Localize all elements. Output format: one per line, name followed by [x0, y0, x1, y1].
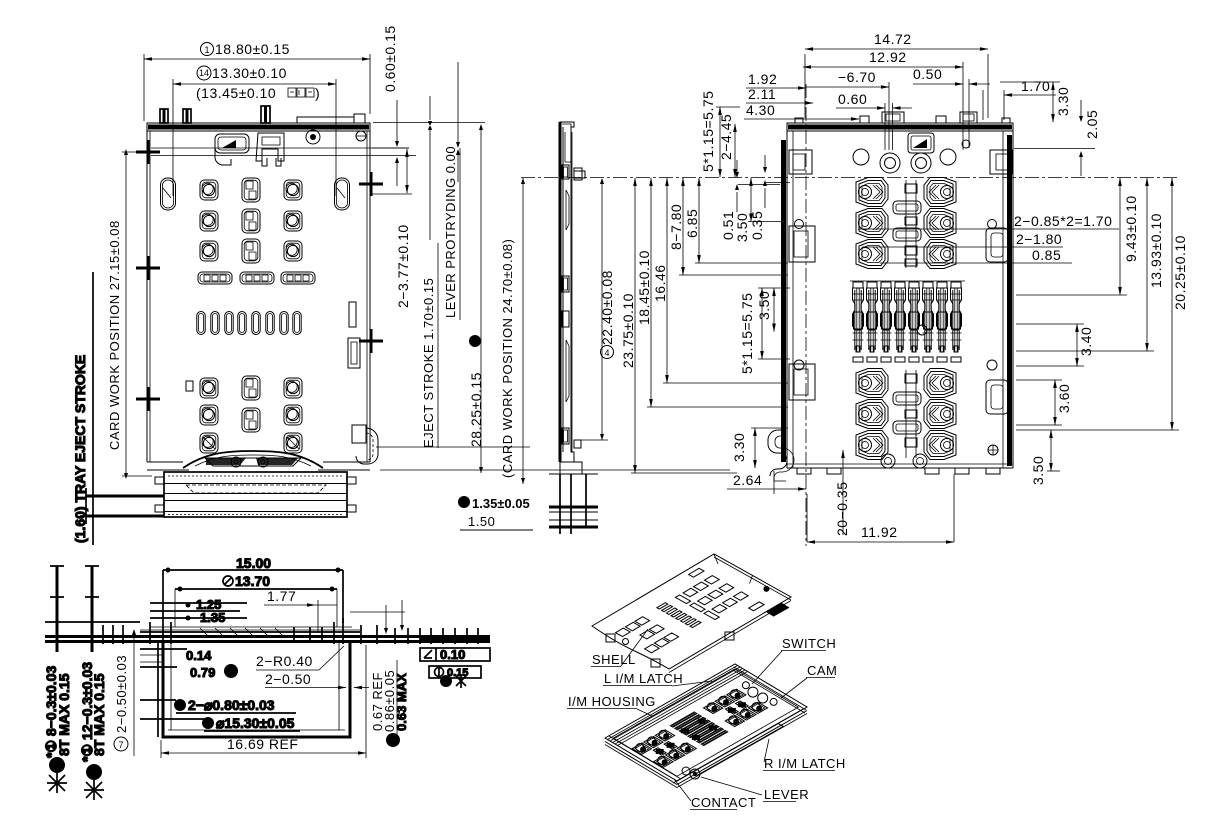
shell holes: [705, 576, 720, 585]
svg-text:2.11: 2.11: [748, 86, 776, 102]
datum dash-dot vertical: [805, 84, 807, 546]
small left stub: [186, 381, 193, 391]
contact row4: [200, 378, 218, 398]
bottom cam column: [906, 370, 916, 458]
svg-text:LEVER: LEVER: [764, 787, 809, 802]
svg-text:3.30: 3.30: [731, 433, 747, 462]
shell ladder slots: [657, 603, 668, 609]
switch feature: [908, 133, 934, 153]
dimension eject stroke line: [429, 96, 431, 240]
dimension 5*1.15=5.75 lower: [761, 288, 763, 359]
small arrows above band: [384, 625, 404, 634]
svg-text:0.14: 0.14: [186, 648, 212, 663]
svg-text:1.77: 1.77: [267, 588, 296, 604]
cross marks left edge: [136, 140, 160, 411]
right dimension 20.25: [1016, 429, 1179, 431]
svg-text:(13.45±0.10: (13.45±0.10: [196, 85, 276, 101]
dimension 3.30 top right: [1000, 81, 1060, 83]
svg-text:14: 14: [199, 68, 209, 78]
right dimension 3.60: [1016, 380, 1062, 425]
side view body: [560, 122, 574, 462]
label 1.35±0.05 bold: [458, 496, 470, 508]
dimension 18.80 ext lines: [144, 54, 370, 121]
dimension 2-4.45: [734, 124, 736, 177]
svg-text:SWITCH: SWITCH: [782, 636, 836, 651]
housing switch circles: [748, 687, 758, 697]
svg-text:2−⌀0.80±0.03: 2−⌀0.80±0.03: [188, 697, 275, 713]
svg-text:0.50: 0.50: [913, 66, 942, 82]
svg-text:0.10: 0.10: [440, 647, 465, 662]
svg-text:20−0.35: 20−0.35: [834, 482, 850, 537]
svg-text:EJECT STROKE 1.70±0.15: EJECT STROKE 1.70±0.15: [421, 278, 436, 448]
dimension 2.05: [1014, 148, 1095, 150]
contact row5: [200, 405, 218, 425]
svg-text:1.35±0.05: 1.35±0.05: [472, 496, 530, 511]
side pin bottom: [574, 440, 581, 448]
svg-text:4.30: 4.30: [746, 102, 775, 118]
dimension 0.60 right: [836, 107, 885, 109]
dimension 2-3.77: [406, 149, 408, 193]
dimension chain 18.45: [650, 178, 652, 407]
svg-text:23.75±0.10: 23.75±0.10: [620, 293, 636, 368]
latch left mid: [789, 226, 815, 262]
dimension 13.30 ext lines: [173, 79, 336, 196]
dimension 28.25 line: [480, 129, 482, 473]
contact row1 ovals: [161, 178, 176, 210]
bottom petal cluster right column: [924, 369, 956, 398]
dimension 3.50 lower-left: [773, 288, 775, 332]
svg-text:2−0.85*2=1.70: 2−0.85*2=1.70: [1014, 213, 1112, 229]
svg-text:14.72: 14.72: [874, 31, 912, 47]
housing outline: [605, 664, 807, 781]
dimension chain 6.85: [698, 178, 700, 263]
svg-text:0.60: 0.60: [838, 91, 867, 107]
label 22.40±0.08: [601, 346, 614, 359]
rounded rect feature: [215, 134, 249, 153]
svg-text:1: 1: [204, 45, 209, 55]
svg-text:3.50: 3.50: [734, 213, 750, 242]
svg-text:2−0.50±0.03: 2−0.50±0.03: [114, 655, 129, 733]
left edge: [146, 131, 148, 462]
svg-text:−6.70: −6.70: [838, 69, 876, 85]
left edge: [786, 131, 788, 468]
svg-text:12.92: 12.92: [869, 49, 907, 65]
dimension 4.30: [744, 118, 859, 120]
svg-text:6.85: 6.85: [684, 209, 700, 238]
dimension 22.40: [601, 183, 603, 440]
main band: [45, 635, 490, 638]
svg-text:16.46: 16.46: [652, 264, 668, 302]
svg-text:0.35: 0.35: [749, 211, 765, 240]
top tabs: [160, 109, 168, 123]
latch left low: [789, 364, 815, 400]
right inner slot: [349, 302, 356, 327]
housing inner plate: [613, 669, 798, 776]
gdt frames right: [420, 648, 490, 661]
round pin: [306, 130, 320, 144]
svg-text:3.30: 3.30: [1055, 87, 1071, 116]
side view top cap: [562, 124, 571, 162]
dome circles: [231, 457, 241, 467]
top tabs: [860, 116, 869, 123]
shell dark mark: [766, 603, 790, 617]
dimension label 18.80±0.15: [201, 43, 214, 56]
feet: [797, 468, 811, 474]
right edge: [1012, 131, 1014, 468]
svg-text:): ): [315, 85, 320, 101]
svg-text:15.00: 15.00: [236, 555, 271, 571]
svg-text:LEVER PROTRYDING 0.00: LEVER PROTRYDING 0.00: [443, 146, 458, 318]
shell edge thickness: [669, 601, 791, 673]
small circles: [795, 220, 804, 229]
body outline: [768, 112, 1013, 481]
svg-text:4: 4: [604, 348, 609, 358]
label 2-0.80 bold: [174, 699, 186, 711]
label 20-0.35: [842, 450, 844, 535]
dimension 13.70 bold: [223, 576, 233, 586]
shell plate outline: [592, 554, 791, 669]
svg-text:8T MAX 0.15: 8T MAX 0.15: [56, 673, 72, 756]
dimension label 13.30±0.10: [197, 66, 211, 80]
right dimension 3.40: [1016, 324, 1084, 366]
svg-text:13.70: 13.70: [235, 573, 270, 589]
svg-text:0.60±0.15: 0.60±0.15: [382, 25, 398, 92]
bottom extension line: [380, 469, 730, 471]
body outline top view: [136, 106, 409, 470]
dimension 18.80 line: [144, 58, 370, 60]
svg-text:CONTACT: CONTACT: [691, 795, 756, 810]
svg-text:28.25±0.15: 28.25±0.15: [468, 372, 484, 447]
svg-text:9.43±0.10: 9.43±0.10: [1123, 195, 1139, 262]
latch right top: [990, 150, 1012, 174]
svg-text:11.92: 11.92: [861, 524, 898, 540]
inner horizontal lines top: [151, 147, 409, 149]
svg-text:2−1.80: 2−1.80: [1016, 231, 1062, 247]
dimension 0.50: [968, 79, 970, 148]
label 2-1.80: [862, 246, 1063, 248]
bottom petal cluster left column: [856, 369, 888, 398]
svg-text:0.85: 0.85: [1032, 247, 1061, 263]
top petal cluster left column: [856, 178, 888, 207]
svg-text:1.50: 1.50: [468, 514, 495, 529]
lever pin: [574, 168, 582, 180]
lower rectangle tray section: [163, 642, 350, 737]
bottom edge: [787, 467, 1013, 469]
svg-text:1.35: 1.35: [200, 610, 225, 625]
label 28.25±0.15: [469, 335, 481, 347]
svg-text:0.79: 0.79: [190, 665, 215, 680]
centre line through side view: [521, 177, 792, 179]
svg-text:2.05: 2.05: [1084, 110, 1100, 139]
latch right low: [986, 380, 1008, 414]
svg-text:18.45±0.10: 18.45±0.10: [636, 250, 652, 325]
side view tray section: [549, 474, 598, 527]
svg-text:8T MAX 0.15: 8T MAX 0.15: [91, 673, 107, 756]
top circles: [853, 149, 869, 165]
spring contacts: [853, 288, 962, 352]
svg-text:2−4.45: 2−4.45: [718, 114, 734, 160]
label 7 2-0.50 rotated: [114, 737, 128, 751]
lever line extensions: [372, 148, 416, 194]
dome: [183, 451, 323, 468]
small circle right: [356, 131, 366, 141]
cam rod: [692, 723, 783, 775]
svg-text:R I/M LATCH: R I/M LATCH: [764, 756, 846, 771]
dimension chain 23.75: [634, 178, 636, 473]
top cam column: [906, 180, 916, 268]
band ticks: [103, 618, 478, 644]
left dimension chain 5*1.15=5.75 top: [719, 107, 721, 177]
latch left top: [789, 150, 812, 174]
dimension 14.72: [805, 54, 988, 118]
shell corner tabs: [606, 634, 615, 642]
svg-text:7: 7: [118, 740, 123, 750]
lever pin: [690, 769, 700, 779]
left bold verticals: [56, 566, 59, 652]
contact row1 squares: [200, 180, 218, 200]
svg-text:13.93±0.10: 13.93±0.10: [1148, 213, 1164, 288]
dimension 0.35: [764, 155, 766, 208]
dimension 24.70 line: [522, 178, 524, 484]
contact row2: [200, 211, 218, 231]
dimension 2.11: [746, 102, 813, 104]
dimension 6.70: [806, 86, 889, 88]
dimension 0.51: [738, 184, 780, 186]
dimension 2.64: [727, 488, 806, 490]
elongated pads: [198, 272, 232, 284]
label 0.85: [880, 262, 1072, 264]
bold cluster 1.25 1.35: [150, 602, 247, 604]
dimension 0.60 arrows: [396, 100, 398, 186]
right dimension 3.50: [1050, 430, 1052, 471]
bottom screw circles: [881, 454, 895, 468]
dimension 3.50 left: [750, 178, 752, 222]
bottom edge with dome: [147, 461, 370, 463]
dimension chain 8-7.80: [682, 178, 684, 275]
bottom right curl: [352, 425, 366, 443]
middle oval row: [197, 312, 205, 335]
spring top rail: [850, 280, 965, 282]
tray eject lines: [86, 495, 164, 498]
svg-text:13.30±0.10: 13.30±0.10: [212, 65, 287, 81]
dimension 3.30 bottom-left: [754, 428, 756, 468]
svg-text:16.69 REF: 16.69 REF: [227, 736, 298, 752]
contact row3: [200, 241, 218, 261]
svg-text:2−3.77±0.10: 2−3.77±0.10: [395, 224, 411, 308]
svg-text:L I/M LATCH: L I/M LATCH: [604, 671, 683, 686]
dimension 1.70: [1004, 94, 1056, 96]
svg-text:1.92: 1.92: [748, 71, 777, 87]
svg-text:3.40: 3.40: [1078, 327, 1094, 356]
latch right mid: [986, 228, 1008, 262]
contact row6: [200, 433, 218, 453]
dimension lever 0.00 zero arrows: [457, 62, 459, 182]
shell pin hole: [763, 586, 769, 592]
svg-text:⌀15.30±0.05: ⌀15.30±0.05: [216, 715, 295, 731]
svg-text:18.80±0.15: 18.80±0.15: [215, 41, 290, 57]
svg-text:3.50: 3.50: [1030, 456, 1046, 485]
housing springs ladder: [670, 712, 697, 727]
dimension chain 16.46: [666, 178, 668, 383]
svg-text:8−7.80: 8−7.80: [668, 204, 684, 250]
dimension 11.92: [807, 474, 954, 542]
dimension 12.92: [962, 62, 964, 150]
dimension 1.92: [746, 87, 806, 89]
label 15.30 bold: [202, 717, 214, 729]
svg-text:5*1.15=5.75: 5*1.15=5.75: [739, 293, 755, 374]
svg-text:3.50: 3.50: [756, 291, 772, 320]
right dimension 13.93: [1016, 350, 1154, 352]
tray below body: [80, 472, 533, 530]
svg-text:2−0.50: 2−0.50: [265, 671, 311, 687]
outer box verticals: [163, 570, 343, 737]
svg-text:5*1.15=5.75: 5*1.15=5.75: [700, 91, 716, 172]
spring pad row: [853, 357, 961, 362]
top band: [147, 123, 370, 131]
lever curl: [768, 430, 787, 476]
svg-text:0.63 MAX: 0.63 MAX: [394, 673, 409, 731]
top petal cluster right column: [924, 178, 956, 207]
svg-text:22.40±0.08: 22.40±0.08: [599, 270, 615, 345]
svg-text:CAM: CAM: [807, 663, 837, 678]
label 2-0.85*2=1.70: [858, 228, 1119, 230]
top edge extension: [373, 122, 485, 124]
dimension 27.15 line: [125, 152, 127, 476]
svg-text:1.70: 1.70: [1021, 78, 1050, 94]
right dimension 9.43: [1016, 294, 1127, 296]
svg-text:CARD WORK POSITION 27.15±0.08: CARD WORK POSITION 27.15±0.08: [107, 220, 122, 450]
svg-text:2.64: 2.64: [733, 472, 762, 488]
side view lower step: [560, 462, 582, 474]
housing rim lines: [608, 666, 738, 740]
right edge: [369, 131, 371, 462]
svg-text:2−R0.40: 2−R0.40: [256, 653, 313, 669]
svg-text:3.60: 3.60: [1056, 384, 1072, 413]
dimension 13.30 line: [173, 83, 336, 85]
chair feature: [256, 133, 284, 161]
centre line horizontal: [795, 177, 1180, 179]
svg-text:20.25±0.10: 20.25±0.10: [1172, 235, 1188, 310]
housing contacts petals: [727, 689, 746, 700]
housing cam bars: [736, 701, 749, 709]
side slots: [562, 165, 569, 179]
svg-text:(CARD WORK POSITION 24.70±0.0: (CARD WORK POSITION 24.70±0.08): [500, 239, 515, 478]
svg-text:I/M HOUSING: I/M HOUSING: [568, 694, 656, 709]
left protrusion lines: [140, 649, 204, 719]
